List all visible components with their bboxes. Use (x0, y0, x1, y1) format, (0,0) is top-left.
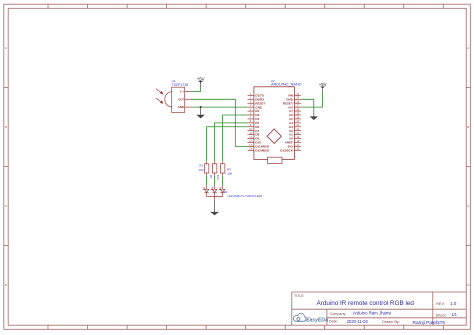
U2 pin 26 A7 (289, 108, 301, 113)
D1 reference label (224, 190, 263, 198)
svg-text:Arduino Ram Jhansi: Arduino Ram Jhansi (353, 311, 392, 316)
svg-text:100: 100 (227, 171, 232, 175)
svg-text:Arduino IR remote control RGB: Arduino IR remote control RGB led (317, 300, 415, 307)
IR receiver U1 TSOP1738 body (165, 87, 185, 112)
svg-text:V +: V + (180, 90, 185, 94)
U2 pin 14 D11/MOSI (248, 144, 270, 149)
U2 pin 5 D2 (248, 108, 260, 113)
svg-text:Sheet:: Sheet: (436, 313, 447, 317)
U2 pin 11 D8 (248, 132, 260, 137)
svg-text:D: D (5, 283, 8, 287)
wire GND net (191, 106, 248, 108)
svg-text:TITLE:: TITLE: (294, 294, 305, 298)
RGB LED D1 LED-RGB-CC-THRU/CLEAR (203, 186, 225, 201)
U2 pin 20 A1 (289, 132, 301, 137)
resistor R2 100 (209, 161, 220, 180)
U2 pin 15 D12/MISO (248, 148, 271, 153)
U1 pin OUT (178, 97, 191, 101)
U2 pin 1 D1/TX (248, 93, 264, 98)
U2 pin 27 +5V (287, 105, 300, 110)
svg-text:Date:: Date: (329, 320, 338, 324)
U2 USB tab (268, 157, 282, 163)
U2 pin 3 RESET (248, 101, 266, 106)
U1 reference label (172, 79, 188, 87)
wire R1 to LED (206, 176, 208, 186)
svg-text:Company:: Company: (330, 312, 347, 316)
U2 pin 2 D0/RX (248, 97, 265, 102)
U2 pin 7 D4 (248, 116, 260, 121)
Arduino U2 body (254, 87, 295, 160)
wire D6 to R1 (207, 127, 248, 161)
ground symbol (under D1) (210, 201, 219, 216)
svg-text:D13/SCK: D13/SCK (280, 148, 294, 152)
ground symbol (under U1 GND) (196, 107, 204, 118)
IR arrow 1 (156, 89, 163, 95)
svg-text:OUT: OUT (178, 97, 184, 101)
title block texts (294, 294, 458, 326)
svg-text:+5V: +5V (197, 77, 205, 82)
svg-text:ARDUINO_NANO: ARDUINO_NANO (271, 83, 302, 87)
U2 pin 23 A4 (289, 120, 301, 125)
svg-text:C: C (5, 204, 8, 208)
U2 pin 6 D3 (248, 112, 260, 117)
U2 pin 10 D7 (248, 128, 260, 133)
U2 pin 19 A0 (289, 136, 301, 141)
svg-text:2020-11-02: 2020-11-02 (347, 319, 369, 324)
U2 pin 13 D10 (248, 140, 262, 145)
wire R2 to LED (214, 176, 216, 186)
svg-text:GND: GND (178, 105, 184, 109)
svg-text:D: D (467, 283, 470, 287)
svg-text:REV:: REV: (436, 302, 445, 306)
U2 pin 4 GND (248, 105, 263, 110)
svg-text:+5V: +5V (319, 82, 327, 87)
U2 pin 29 GND (286, 97, 301, 102)
svg-text:TSOP1738: TSOP1738 (172, 83, 188, 87)
U2 pin 21 A2 (289, 128, 301, 133)
resistor R3 100 (220, 161, 232, 175)
svg-text:LED-RGB-CC-THRU/CLEAR: LED-RGB-CC-THRU/CLEAR (228, 194, 263, 198)
wire V+ to +5V (191, 91, 201, 93)
U2 pin 22 A3 (289, 124, 301, 129)
title block table (292, 292, 466, 325)
U2 pin 8 D5 (248, 120, 260, 125)
svg-text:100: 100 (216, 175, 220, 180)
U2 pin 24 A5 (289, 116, 301, 121)
U1 pin GND (178, 105, 191, 109)
svg-text:Ramji Patel376: Ramji Patel376 (413, 320, 446, 326)
U2 reference label (271, 79, 302, 87)
svg-text:R2: R2 (209, 175, 213, 179)
svg-text:A: A (5, 46, 7, 50)
EasyEDA logo (293, 313, 328, 323)
svg-text:B: B (5, 125, 7, 129)
svg-text:R1: R1 (199, 164, 203, 168)
IR arrow 2 (156, 98, 163, 104)
svg-text:B: B (467, 125, 469, 129)
U2 pin 17 3V3 (288, 144, 301, 149)
U2 pin 12 D9 (248, 136, 260, 141)
wire +5V pin to flag (301, 93, 323, 108)
U2 pin 18 AREF (285, 140, 301, 145)
ground symbol (right of U2) (310, 113, 318, 120)
wire D5 to R2 (215, 123, 248, 161)
U2 pin 30 VIN (288, 93, 301, 98)
U2 diamond mark (267, 129, 281, 143)
svg-text:Drawn By:: Drawn By: (382, 319, 400, 324)
wire OUT to D11/MOSI (191, 99, 248, 146)
svg-text:C: C (467, 204, 470, 208)
svg-text:100: 100 (198, 168, 203, 172)
svg-text:D12/MISO: D12/MISO (255, 148, 270, 152)
svg-text:1.0: 1.0 (450, 301, 457, 306)
wire GND pin to ground (301, 99, 314, 113)
svg-text:1/1: 1/1 (451, 312, 457, 317)
svg-text:D1: D1 (224, 190, 228, 194)
power flag +5V (left) (197, 77, 205, 92)
wire R3 to LED (222, 176, 224, 186)
power flag +5V (right) (319, 82, 327, 88)
U2 pin 25 A6 (289, 112, 301, 117)
resistor R1 100 (198, 161, 208, 175)
svg-text:A: A (467, 46, 469, 50)
svg-text:EasyEDA: EasyEDA (306, 318, 329, 324)
U2 pin 9 D6 (248, 124, 260, 129)
U1 pin V+ (180, 90, 191, 94)
junction dot (200, 106, 202, 108)
wire D3 to R3 (223, 115, 248, 161)
U2 pin 28 RESET (283, 101, 301, 106)
U2 pin 16 D13/SCK (280, 148, 301, 153)
